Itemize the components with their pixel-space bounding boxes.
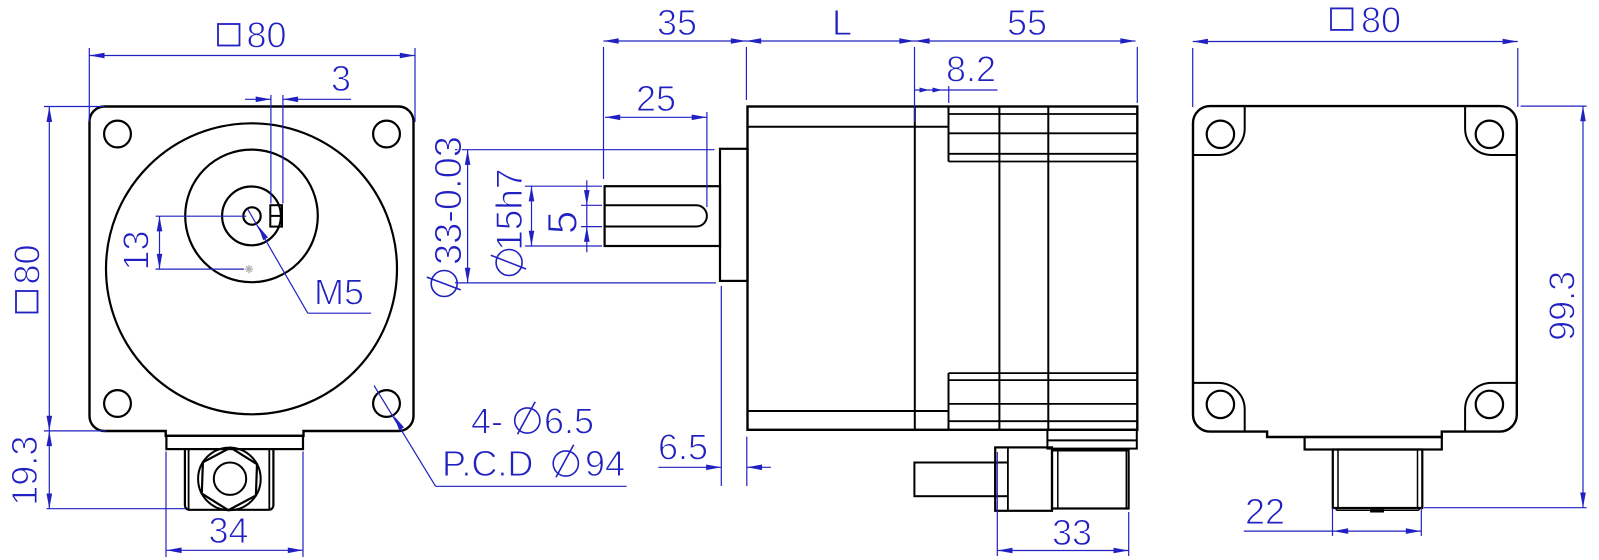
- side connector socket B: [1052, 450, 1129, 508]
- leader 4-dia6.5 PCD94: [374, 386, 436, 487]
- front mounting hole bottom-left: [104, 390, 131, 417]
- front mounting hole top-right: [373, 121, 400, 148]
- back connector socket inner lines: [1337, 450, 1339, 509]
- dim sq80 top: dimension line: [89, 55, 415, 57]
- dim 6.5: dimension lines: [658, 466, 721, 468]
- center asterisk mark: [245, 265, 253, 273]
- svg-text:94: 94: [585, 443, 625, 484]
- dim 33: dimension line: [997, 550, 1128, 552]
- side motor fin lines bottom: [949, 373, 1138, 421]
- front connector plate: [166, 436, 303, 449]
- dim 99.3: extension lines: [1521, 105, 1587, 107]
- dim 13: dimension line: [159, 216, 161, 269]
- svg-text:19.3: 19.3: [4, 436, 45, 506]
- svg-text:80: 80: [1361, 0, 1401, 41]
- svg-text:35: 35: [657, 2, 697, 43]
- back screw hole bottom-left: [1207, 391, 1234, 418]
- side shaft: [605, 186, 720, 246]
- dim 8.2: dimension line: [915, 89, 998, 91]
- dim 35/L/55: extension lines: [603, 47, 605, 179]
- dim dia33-0.03: extension lines: [455, 149, 715, 151]
- front nut bore circle: [214, 463, 246, 495]
- back screw hole top-left: [1207, 121, 1234, 148]
- front gear circle: [185, 150, 318, 283]
- dim sq80 back: square symbol: [1331, 8, 1353, 30]
- back connector bottom line: [1336, 508, 1419, 510]
- svg-text:6.5: 6.5: [658, 427, 708, 468]
- front M5 tap hole circle: [243, 207, 260, 224]
- front connector block inner left line: [188, 449, 190, 509]
- svg-text:13: 13: [116, 230, 157, 270]
- svg-text:6.5: 6.5: [544, 401, 594, 442]
- front keyway mid line: [270, 215, 282, 217]
- side body outline: [748, 107, 1138, 430]
- side gearbox/motor divider: [914, 107, 916, 430]
- front hex nut: [202, 448, 257, 511]
- dim sq80 back: extension lines: [1192, 48, 1194, 107]
- back screw hole top-right: [1476, 121, 1503, 148]
- side motor section vertical 1: [998, 107, 1000, 430]
- side connector block A inner line: [1007, 447, 1009, 510]
- dim 25: extension line right: [706, 112, 708, 207]
- svg-text:55: 55: [1007, 2, 1047, 43]
- svg-text:99.3: 99.3: [1542, 271, 1583, 341]
- side lead wire stub: [914, 463, 995, 497]
- side shaft keyway slot: [605, 205, 707, 226]
- side shaft boss: [720, 149, 748, 281]
- front connector block inner right line: [268, 449, 270, 509]
- dim sq80 top: square symbol: [218, 24, 240, 46]
- dim 33: extension lines: [996, 452, 998, 556]
- svg-text:5: 5: [539, 211, 586, 234]
- back connector bottom mark: [1370, 509, 1384, 512]
- back lobe top-right: [1465, 107, 1516, 156]
- svg-text:25: 25: [636, 78, 676, 119]
- dim 13: extension line to square center: [156, 268, 244, 270]
- back lobe bottom-left: [1194, 383, 1245, 432]
- side connector block A: [995, 447, 1052, 510]
- dim dia15h7: extension lines: [525, 185, 602, 187]
- dim 8.2: extension line short: [948, 86, 950, 103]
- svg-text:P.C.D: P.C.D: [442, 443, 533, 484]
- svg-text:4-: 4-: [471, 401, 503, 442]
- back connector socket: [1333, 450, 1423, 509]
- dim 34: dimension line: [166, 549, 303, 551]
- dim 35/L/55: dimension line: [604, 40, 1136, 42]
- back screw hole bottom-right: [1476, 391, 1503, 418]
- dim sq80 top: extension lines: [88, 48, 90, 122]
- side motor fin lines top: [949, 114, 1138, 162]
- back lobe bottom-right: [1465, 383, 1516, 432]
- dim dia15h7: text rotated: [489, 168, 530, 275]
- dim 3 keyway: extension lines: [270, 95, 272, 204]
- svg-text:22: 22: [1245, 491, 1285, 532]
- front nut washer circle: [198, 448, 261, 511]
- dim 25: dimension line: [605, 116, 707, 118]
- dim 99.3: dimension line: [1582, 106, 1584, 508]
- side fin boundary vertical top: [948, 107, 950, 162]
- back connector plate: [1305, 437, 1442, 450]
- dim sq80 left: extension lines: [44, 106, 104, 108]
- dim dia33-0.03: dimension line: [467, 150, 469, 283]
- dim sq80 left + 19.3: shared dimension line: [48, 107, 50, 509]
- back lobe top-left: [1194, 107, 1245, 156]
- leader M5: [248, 209, 308, 313]
- dim 5: dimension line: [586, 180, 588, 252]
- front mounting hole bottom-right: [373, 390, 400, 417]
- dim 22: extension lines: [1332, 508, 1334, 536]
- dim sq80 left: square symbol and text rotated: [7, 244, 48, 312]
- front keyway rectangle: [270, 205, 282, 226]
- side fin boundary vertical bottom: [948, 373, 950, 430]
- side inner bottom line: [748, 410, 949, 412]
- front mounting hole top-left: [104, 121, 131, 148]
- svg-text:80: 80: [7, 244, 48, 284]
- dim dia33-0.03: text rotated: [427, 136, 470, 296]
- side motor section vertical 2: [1047, 107, 1049, 430]
- dim 13: extension line to shaft center: [156, 215, 247, 217]
- side connector socket B inner lines: [1057, 450, 1059, 508]
- dim dia15h7: dimension line: [531, 186, 533, 246]
- svg-text:M5: M5: [314, 272, 364, 313]
- svg-text:33-0.03: 33-0.03: [428, 136, 470, 265]
- side inner top line: [748, 126, 949, 128]
- svg-text:3: 3: [331, 58, 351, 99]
- front shaft boss circle: [222, 187, 281, 246]
- dim 6.5: extension lines: [720, 286, 722, 486]
- svg-text:8.2: 8.2: [946, 49, 996, 90]
- front connector block: [185, 449, 274, 510]
- dim 5: extension lines: [581, 204, 602, 206]
- front motor body circle: [106, 123, 397, 414]
- svg-text:80: 80: [247, 15, 287, 56]
- side rear bottom flange mid line: [1047, 439, 1136, 441]
- svg-text:33: 33: [1052, 512, 1092, 553]
- dim sq80 back: dimension line: [1193, 41, 1518, 43]
- svg-text:34: 34: [209, 510, 249, 551]
- dim 3 keyway: dimension lines and arrows: [245, 98, 271, 100]
- back square outline with bottom recess: [1193, 106, 1517, 437]
- dim 22: dimension line: [1244, 530, 1421, 532]
- side rear bottom flange: [1047, 430, 1136, 449]
- svg-text:15h7: 15h7: [489, 168, 530, 250]
- side connector lead lines in block A: [995, 462, 1008, 464]
- dim 19.3: extension line bottom: [47, 508, 186, 510]
- front flange square outline with bottom recess: [90, 107, 414, 436]
- dim 34: extension lines: [165, 452, 167, 558]
- svg-text:L: L: [832, 2, 852, 43]
